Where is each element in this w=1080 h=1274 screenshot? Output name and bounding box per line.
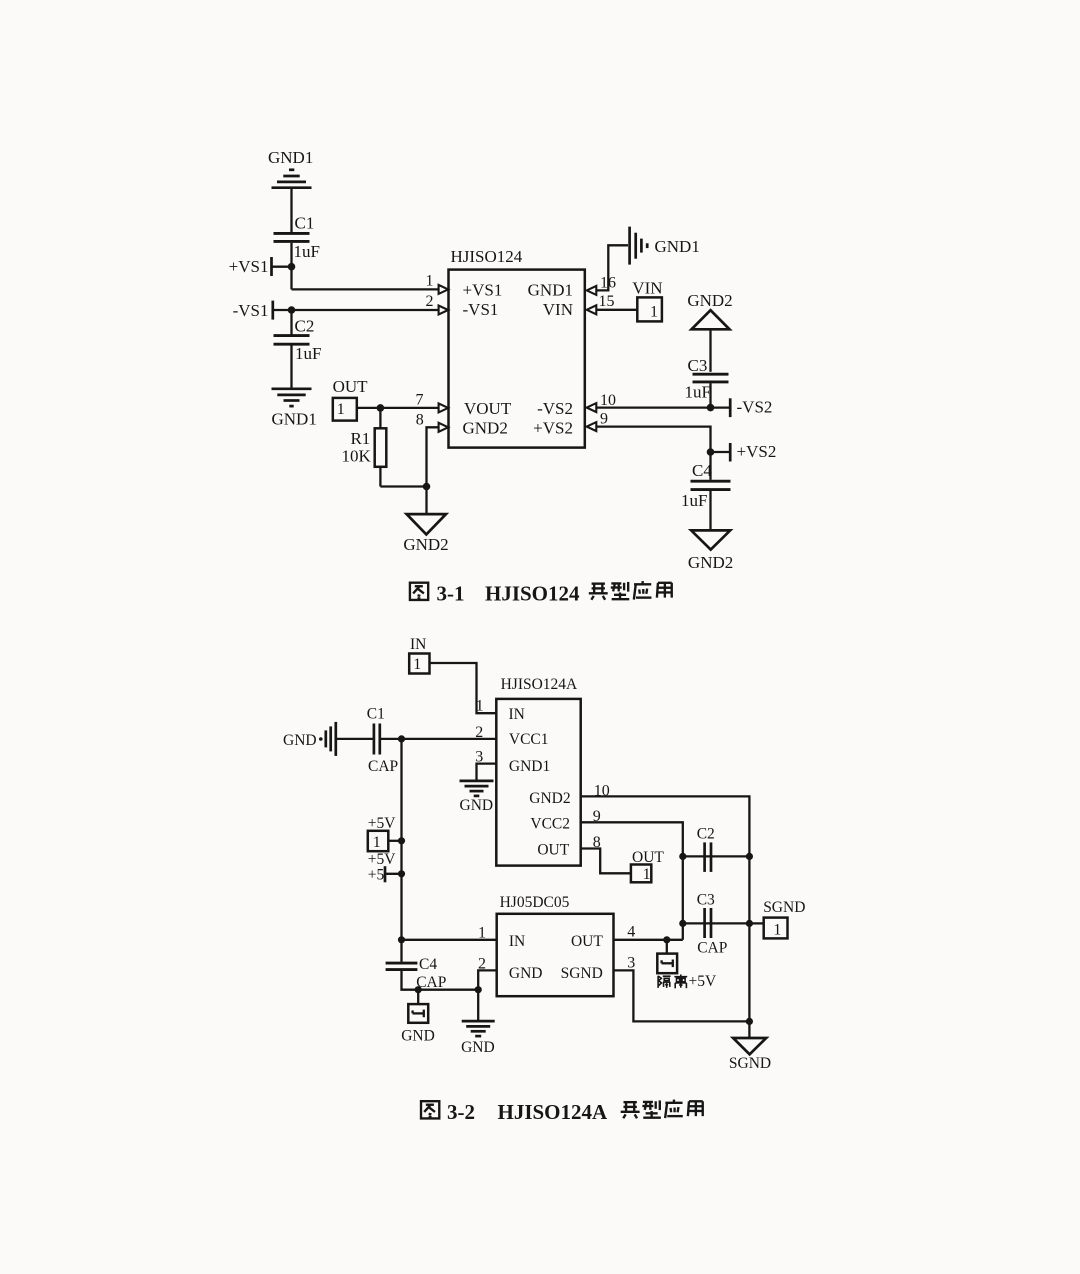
wire +5 rail to pin 1	[402, 939, 497, 941]
wire -VS1 to C2	[290, 310, 292, 335]
wire GND1 to C1	[290, 189, 292, 232]
port GND left sideways	[283, 722, 336, 756]
pin 7 arrow	[439, 403, 449, 412]
capacitor C4 CAP	[386, 956, 447, 991]
wire pin 8 to OUT	[581, 849, 631, 874]
svg-text:1: 1	[373, 834, 381, 851]
port VIN	[632, 278, 662, 321]
wire IN to pin 1	[430, 663, 497, 713]
svg-text:R1: R1	[350, 429, 370, 448]
port IN	[409, 636, 429, 673]
svg-text:GND2: GND2	[688, 553, 733, 572]
svg-text:GND: GND	[460, 797, 494, 814]
wire C4 down	[402, 971, 479, 990]
svg-text:CAP: CAP	[368, 758, 398, 775]
svg-text:+5V: +5V	[368, 815, 396, 832]
junction +VS2 node	[707, 448, 715, 456]
junction GND2 node	[423, 483, 431, 491]
junction +5 node	[398, 870, 405, 877]
junction rail pin1	[398, 936, 405, 943]
svg-text:1uF: 1uF	[685, 382, 711, 401]
ground GND1 right sideways	[630, 227, 700, 265]
svg-text:IN: IN	[509, 706, 525, 723]
svg-text:SGND: SGND	[763, 899, 805, 916]
capacitor C1 1uF	[274, 214, 320, 261]
wire C4 to GND2	[709, 491, 711, 530]
wire to pin 7	[380, 407, 438, 409]
svg-text:C4: C4	[692, 461, 712, 480]
svg-text:OUT: OUT	[333, 377, 369, 396]
svg-text:OUT: OUT	[632, 849, 664, 866]
svg-text:1uF: 1uF	[295, 344, 321, 363]
svg-text:1: 1	[413, 656, 421, 673]
svg-text:OUT: OUT	[571, 933, 603, 950]
pin 16 arrow	[587, 286, 597, 295]
svg-text:GND2: GND2	[687, 291, 732, 310]
junction VCC1 node	[398, 735, 405, 742]
svg-text:+VS2: +VS2	[533, 419, 573, 438]
svg-text:HJISO124A: HJISO124A	[498, 1100, 609, 1124]
svg-text:C3: C3	[697, 891, 715, 908]
wire +VS2 to C4	[709, 452, 711, 480]
svg-text:-VS1: -VS1	[463, 300, 499, 319]
svg-text:1: 1	[650, 304, 658, 321]
power port GND2 bottom-right	[688, 530, 733, 572]
svg-text:2: 2	[426, 293, 434, 310]
svg-text:SGND: SGND	[729, 1055, 771, 1072]
svg-text:2: 2	[475, 724, 483, 741]
svg-text:GND: GND	[461, 1039, 495, 1056]
junction C2 right	[746, 853, 753, 860]
pin 1 arrow	[439, 285, 449, 294]
svg-text:-VS2: -VS2	[737, 398, 773, 417]
svg-text:8: 8	[416, 412, 424, 429]
svg-text:C2: C2	[697, 825, 715, 842]
power port GND2 top-right	[687, 291, 732, 330]
wire pin 3 to SGND	[614, 970, 750, 1021]
capacitor C2	[683, 825, 750, 872]
svg-text:IN: IN	[509, 933, 525, 950]
capacitor C4 1uF	[681, 461, 731, 510]
wire +5V rail	[400, 739, 402, 962]
IC U3 HJ05DC05	[497, 894, 614, 996]
svg-text:GND: GND	[401, 1027, 435, 1044]
svg-text:VOUT: VOUT	[464, 399, 512, 418]
svg-text:+5V: +5V	[689, 973, 717, 990]
capacitor C1 CAP	[367, 705, 398, 775]
port OUT	[333, 377, 381, 421]
junction C2 left	[679, 853, 686, 860]
svg-text:3: 3	[627, 954, 635, 971]
svg-text:GND2: GND2	[529, 790, 570, 807]
junction C3 left	[679, 920, 686, 927]
svg-text:VCC2: VCC2	[530, 816, 570, 833]
svg-text:GND2: GND2	[403, 535, 448, 554]
svg-text:HJISO124: HJISO124	[485, 581, 580, 605]
wire GND to C1	[337, 738, 373, 740]
resistor R1 10K	[342, 408, 387, 487]
svg-text:GND1: GND1	[268, 148, 313, 167]
svg-text:C1: C1	[295, 214, 315, 233]
caption figure 3-2	[421, 1100, 703, 1124]
svg-text:10: 10	[600, 392, 616, 409]
svg-text:HJISO124: HJISO124	[451, 247, 523, 266]
svg-text:1: 1	[773, 921, 781, 938]
svg-text:GND2: GND2	[463, 419, 508, 438]
svg-text:1: 1	[426, 272, 434, 289]
wire pin 3 to GND	[477, 764, 497, 781]
power port GND2 bottom-center	[403, 487, 448, 554]
wire pin 9 left rail	[581, 822, 683, 940]
capacitor C3 1uF	[685, 356, 729, 401]
svg-text:GND: GND	[509, 965, 543, 982]
svg-text:GND1: GND1	[528, 281, 573, 300]
port +VS2	[711, 442, 777, 461]
svg-text:C3: C3	[688, 356, 708, 375]
svg-text:-VS2: -VS2	[537, 399, 573, 418]
wire to pin 1	[292, 288, 440, 290]
port isolated +5V	[657, 940, 717, 990]
svg-text:OUT: OUT	[537, 842, 569, 859]
junction OUT node	[377, 404, 385, 412]
svg-text:+5: +5	[368, 866, 385, 883]
svg-text:VIN: VIN	[543, 300, 573, 319]
svg-text:-VS1: -VS1	[233, 301, 269, 320]
caption figure 3-1	[410, 581, 672, 605]
wire pin16 to GND1	[596, 245, 628, 290]
svg-text:15: 15	[599, 293, 615, 310]
port +5V	[368, 815, 402, 851]
svg-text:4: 4	[627, 923, 635, 940]
pin 15 arrow	[587, 305, 597, 314]
svg-text:IN: IN	[410, 636, 426, 653]
svg-text:1uF: 1uF	[681, 491, 707, 510]
port -VS1	[233, 301, 439, 321]
svg-text:+VS1: +VS1	[463, 281, 503, 300]
svg-text:GND: GND	[283, 732, 317, 749]
svg-text:GND1: GND1	[655, 237, 700, 256]
capacitor C3 CAP	[683, 891, 750, 956]
svg-text:GND1: GND1	[272, 409, 317, 428]
svg-text:CAP: CAP	[697, 939, 727, 956]
pin 10 arrow	[587, 403, 597, 412]
ground GND below pin 2	[461, 1021, 495, 1056]
svg-text:3-2: 3-2	[447, 1100, 475, 1124]
IC U1 HJISO124	[449, 247, 585, 448]
IC U2 HJISO124A	[496, 676, 580, 866]
svg-text:HJ05DC05: HJ05DC05	[500, 894, 570, 911]
junction isolated +5V node	[663, 936, 670, 943]
port SGND	[749, 899, 805, 939]
svg-text:+5V: +5V	[368, 851, 396, 868]
junction GND box node	[415, 986, 422, 993]
junction SGND node	[746, 1018, 753, 1025]
svg-text:3-1: 3-1	[437, 581, 465, 605]
svg-text:+VS1: +VS1	[229, 257, 269, 276]
wire pin15 to VIN	[596, 309, 637, 311]
junction pin2 node	[475, 986, 482, 993]
wire pin10 to -VS2	[596, 406, 730, 408]
svg-text:9: 9	[600, 411, 608, 428]
ground GND1 bottom-left	[272, 389, 317, 429]
svg-text:VIN: VIN	[632, 278, 662, 297]
port -VS2	[730, 398, 772, 418]
svg-text:1: 1	[476, 697, 484, 714]
svg-text:+VS2: +VS2	[737, 442, 777, 461]
port +VS1	[229, 257, 292, 276]
pin 9 arrow	[587, 422, 597, 431]
svg-text:7: 7	[416, 391, 424, 408]
port OUT	[631, 849, 664, 883]
svg-text:10K: 10K	[342, 446, 372, 465]
svg-text:C4: C4	[419, 956, 437, 973]
svg-text:1: 1	[337, 401, 345, 418]
svg-text:1uF: 1uF	[294, 242, 320, 261]
wire C1 to pin1 elbow	[290, 243, 292, 290]
wire pin 8	[427, 427, 439, 486]
wire C3 to -VS2 node	[709, 383, 711, 407]
svg-text:1: 1	[643, 866, 651, 883]
power port GND1 top-left	[268, 148, 313, 188]
capacitor C2 1uF	[274, 316, 322, 362]
svg-text:HJISO124A: HJISO124A	[501, 676, 578, 693]
svg-text:C1: C1	[367, 705, 385, 722]
wire C1 to pin 2	[381, 738, 496, 740]
pin 2 arrow	[439, 306, 449, 315]
wire pin 10 right rail	[581, 796, 750, 1021]
svg-text:SGND: SGND	[561, 965, 603, 982]
wire C2 to GND1	[290, 346, 292, 388]
wire pin 4	[614, 939, 683, 941]
pin 8 arrow	[439, 423, 449, 432]
junction +5V node	[398, 837, 405, 844]
wire to ground	[477, 990, 479, 1021]
junction C3 right	[746, 920, 753, 927]
svg-text:VCC1: VCC1	[509, 731, 549, 748]
svg-text:C2: C2	[295, 316, 315, 335]
svg-text:GND1: GND1	[509, 758, 550, 775]
junction +VS1 node	[288, 263, 296, 271]
wire GND2 to C3	[709, 329, 711, 372]
ground GND below pin 3	[460, 781, 494, 814]
wire pin9 to +VS2 node	[596, 427, 710, 452]
wire pin 2	[478, 970, 497, 989]
port +5	[368, 851, 402, 884]
junction -VS1 node	[288, 306, 296, 314]
wire R1 to GND2 node	[380, 485, 426, 487]
junction -VS2 node	[707, 404, 715, 412]
power port SGND bottom	[729, 1021, 771, 1071]
port GND box	[401, 990, 435, 1045]
